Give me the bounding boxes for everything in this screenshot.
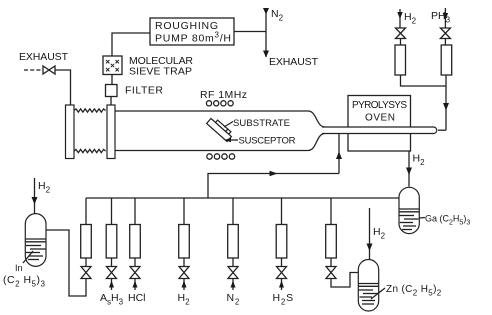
- branch: AsH3 supply line: [100, 198, 124, 307]
- branch: Zn bubbler line: [326, 198, 359, 287]
- H2 inlet (top right): [399, 9, 401, 28]
- svg-text:Zn (C2 H5)2: Zn (C2 H5)2: [386, 284, 442, 298]
- susceptor (tilted bar): [207, 119, 232, 142]
- exhaust valve: [43, 66, 55, 74]
- induction coil bottom: [207, 154, 235, 159]
- manifold riser: [208, 174, 339, 199]
- reactor tube top wall: [115, 111, 325, 127]
- svg-text:SIEVE TRAP: SIEVE TRAP: [129, 66, 192, 78]
- H2 valve: [396, 28, 406, 39]
- H2 flowmeter: [395, 45, 406, 75]
- induction coil top: [206, 101, 233, 106]
- branch: H2S supply line: [273, 198, 294, 307]
- H2 inlet to In bubbler: [34, 178, 36, 214]
- svg-text:H2: H2: [404, 11, 417, 26]
- svg-text:SUBSTRATE: SUBSTRATE: [233, 118, 290, 129]
- reactor tube bottom wall: [115, 134, 325, 151]
- wire: [400, 39, 402, 46]
- In bubbler label: [23, 251, 33, 263]
- svg-text:OVEN: OVEN: [365, 113, 395, 124]
- svg-text:N2: N2: [227, 292, 241, 307]
- svg-text:In: In: [15, 263, 23, 273]
- Zn bubbler liquid: [359, 284, 379, 305]
- Ga liquid: [399, 209, 419, 230]
- svg-text:PYROLYSYS: PYROLYSYS: [352, 100, 407, 111]
- svg-text:PUMP 80m3/H: PUMP 80m3/H: [155, 31, 231, 45]
- In bubbler liquid: [26, 239, 46, 260]
- branch: H2 supply line: [178, 198, 191, 307]
- wire: feed to tube end: [438, 129, 446, 131]
- svg-text:PH3: PH3: [431, 10, 451, 25]
- svg-text:H2: H2: [413, 153, 426, 168]
- substrate (small tilted bar on susceptor): [216, 120, 228, 131]
- manifold flow arrow: [270, 171, 278, 177]
- svg-text:HCl: HCl: [128, 292, 146, 304]
- substrate leader: [224, 122, 233, 128]
- wire: pump to exhaust riser: [234, 31, 266, 33]
- H2 to Ga bubbler: [408, 152, 410, 187]
- branch: N2 supply line: [227, 198, 241, 307]
- inner tube through oven: [322, 127, 437, 134]
- In bubbler: [25, 214, 46, 267]
- filter: [106, 85, 118, 97]
- wire: dashed exhaust line: [24, 69, 43, 71]
- susceptor leader: [225, 138, 232, 142]
- exhaust outlet arrow: [263, 51, 269, 58]
- pyrolysis oven: [348, 96, 411, 152]
- wire: H2 join: [401, 75, 447, 86]
- wire: valve to chamber flange: [55, 70, 71, 105]
- roughing pump: [150, 18, 234, 45]
- svg-text:EXHAUST: EXHAUST: [19, 51, 69, 63]
- wire: trap to roughing pump: [112, 33, 150, 56]
- molecular sieve trap: [103, 56, 122, 75]
- bellows bottom: [74, 149, 106, 152]
- wire: feed line down to tube: [445, 75, 447, 130]
- N2 inlet arrow: [265, 8, 267, 57]
- PH3 flowmeter: [441, 45, 452, 75]
- svg-text:N2: N2: [271, 8, 284, 23]
- H2 inlet to Zn bubbler: [369, 208, 371, 260]
- substrate step: [226, 129, 231, 134]
- svg-text:H2: H2: [178, 292, 191, 307]
- manifold line: [86, 197, 399, 199]
- reactor chamber right flange: [107, 105, 115, 159]
- svg-text:(C2 H5)3: (C2 H5)3: [3, 274, 46, 289]
- svg-text:SUSCEPTOR: SUSCEPTOR: [239, 136, 296, 147]
- svg-text:RF 1MHz: RF 1MHz: [200, 89, 247, 101]
- svg-text:H2S: H2S: [273, 292, 294, 307]
- Zn bubbler: [358, 260, 378, 312]
- wire: trap to filter: [111, 75, 113, 85]
- reactor chamber left flange: [66, 105, 75, 159]
- wire: filter to chamber: [110, 97, 112, 106]
- Ga bubbler: [399, 187, 419, 233]
- wire: [444, 39, 446, 46]
- svg-text:ROUGHING: ROUGHING: [155, 20, 218, 32]
- branch: HCl supply line: [128, 198, 146, 304]
- bellows top: [74, 109, 106, 112]
- svg-text:H2: H2: [373, 226, 386, 241]
- svg-text:FILTER: FILTER: [125, 85, 163, 97]
- Zn bubbler label: [371, 288, 385, 299]
- svg-text:H2: H2: [38, 180, 51, 195]
- svg-text:AsH3: AsH3: [100, 292, 124, 307]
- svg-text:Ga (C2H5)3: Ga (C2H5)3: [425, 214, 470, 227]
- svg-text:EXHAUST: EXHAUST: [269, 56, 319, 68]
- branch: In bubbler line: [46, 198, 91, 296]
- PH3 valve: [440, 28, 450, 39]
- Ga label: [420, 217, 426, 220]
- gas inlet riser to chamber neck: [338, 134, 340, 174]
